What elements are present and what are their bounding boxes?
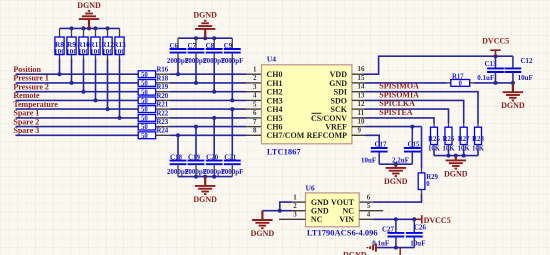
wire net VREF pin10	[352, 126, 365, 128]
svg-text:C20: C20	[206, 153, 219, 161]
capacitor C6 2000pF	[170, 49, 187, 53]
svg-text:R18: R18	[157, 75, 169, 82]
wire R26 to ground bus	[448, 145, 450, 149]
svg-text:CS/CONV: CS/CONV	[311, 114, 347, 123]
svg-text:DGND: DGND	[444, 169, 468, 178]
svg-text:R17: R17	[452, 73, 464, 80]
svg-text:50: 50	[141, 133, 148, 140]
svg-text:DVCC5: DVCC5	[424, 216, 451, 225]
svg-text:VREF: VREF	[325, 123, 347, 132]
junction	[194, 175, 198, 179]
junction pin1/pin2	[278, 209, 282, 213]
svg-text:15: 15	[358, 74, 366, 82]
ground DGND (top-left)	[79, 11, 99, 29]
wire C12 top stub	[512, 56, 514, 68]
svg-text:LT1790ACS6-4.096: LT1790ACS6-4.096	[307, 227, 378, 237]
svg-text:DGND: DGND	[193, 11, 217, 20]
svg-text:SPISTEA: SPISTEA	[379, 108, 413, 117]
svg-text:7: 7	[253, 118, 257, 126]
svg-text:CH1: CH1	[267, 79, 283, 88]
wire top-left resistor bus	[60, 27, 120, 29]
svg-text:Pressure 2: Pressure 2	[13, 83, 48, 92]
wire R8 to row 1	[59, 55, 61, 59]
resistor R18 50	[138, 80, 155, 87]
resistor R17 0	[451, 80, 470, 87]
wire R24 to U4 pin 8	[156, 134, 170, 136]
svg-text:R29: R29	[426, 174, 438, 181]
svg-text:VDD: VDD	[330, 70, 348, 79]
svg-text:C21: C21	[224, 153, 237, 161]
wire net Pressure 2	[16, 91, 139, 93]
svg-text:2: 2	[293, 202, 297, 210]
svg-text:Pressure 1: Pressure 1	[13, 74, 48, 83]
capacitor C17 10uF	[371, 148, 388, 152]
svg-text:0: 0	[426, 181, 430, 188]
wire C8 top stub	[213, 38, 215, 49]
wire net Temperature	[16, 108, 139, 110]
svg-text:13: 13	[358, 91, 366, 99]
resistor R8 100	[59, 28, 61, 37]
svg-text:DGND: DGND	[251, 229, 275, 238]
wire VREF down to R29	[421, 127, 423, 169]
resistor R27 10K	[460, 127, 467, 144]
wire R10 to row 3	[83, 55, 85, 59]
wire R20 to U4 pin 4	[156, 99, 170, 101]
wire net REFCOMP pin9	[352, 134, 365, 136]
wire net Pressure 1	[16, 82, 139, 84]
svg-text:C7: C7	[187, 42, 196, 50]
resistor R12 100	[107, 28, 109, 37]
svg-text:CH2: CH2	[267, 88, 283, 97]
wire R12 to row 5	[107, 55, 109, 59]
capacitor C26 10uF	[406, 233, 423, 237]
junction C27	[394, 217, 398, 221]
svg-text:5: 5	[253, 100, 257, 108]
resistor R10 100	[83, 28, 85, 37]
svg-text:R25: R25	[428, 136, 440, 143]
svg-text:CH4: CH4	[267, 105, 283, 114]
junction	[212, 175, 216, 179]
resistor R13 100	[119, 28, 121, 37]
svg-text:R21: R21	[157, 102, 169, 109]
junction C13/GND wire	[494, 81, 498, 85]
svg-text:11: 11	[358, 109, 365, 117]
svg-text:Spare 1: Spare 1	[13, 109, 39, 118]
resistor R16 50	[138, 71, 155, 78]
wire R11 to row 4	[95, 55, 97, 59]
wire C7 top stub	[195, 38, 197, 49]
svg-text:R16: R16	[157, 67, 169, 74]
junction C26	[412, 217, 416, 221]
wire C15 top stub	[411, 127, 413, 148]
wire net SPISTEA	[352, 117, 365, 119]
junction	[106, 26, 110, 30]
wire R27 to ground bus	[463, 145, 465, 149]
junction DGND stub	[394, 162, 398, 166]
svg-text:DGND: DGND	[193, 195, 217, 204]
svg-text:C15: C15	[407, 141, 420, 149]
junction	[394, 246, 398, 250]
capacitor C20 2000pF	[206, 161, 223, 165]
wire net VDD / DVCC5 rail (pin 16)	[352, 73, 364, 75]
wire C20 from row 6	[212, 116, 216, 120]
wire net SPISOMIA	[352, 99, 365, 101]
junction	[106, 107, 110, 111]
junction	[212, 90, 216, 94]
junction	[70, 81, 74, 85]
wire C27 top stub	[395, 219, 397, 233]
capacitor C27 0.1uF	[388, 233, 405, 237]
junction	[70, 26, 74, 30]
junction	[447, 154, 451, 158]
wire R28 to ground bus	[477, 145, 479, 149]
svg-text:REFCOMP: REFCOMP	[307, 131, 348, 140]
resistor R21 50	[138, 106, 155, 113]
svg-text:SPICLKA: SPICLKA	[379, 99, 415, 108]
wire ground stub down (cut off)	[399, 248, 401, 255]
junction	[94, 26, 98, 30]
resistor R28 10K	[475, 127, 482, 144]
svg-text:1: 1	[293, 194, 297, 202]
wire U6 pin2	[292, 210, 306, 212]
wire C18 bottom stub	[177, 164, 179, 176]
svg-text:R22: R22	[157, 110, 169, 117]
wire C17 bottom stub	[378, 152, 380, 165]
svg-text:C9: C9	[224, 42, 233, 50]
wire net SPISIMOA	[352, 91, 365, 93]
wire C18 from row 8	[176, 133, 180, 137]
svg-text:14: 14	[358, 83, 366, 91]
junction DVCC5/C13	[494, 54, 498, 58]
wire net Spare 1	[16, 117, 139, 119]
wire C21 bottom stub	[231, 164, 233, 176]
wire C9 to row 4	[231, 53, 233, 58]
junction DGND stub	[87, 26, 91, 30]
svg-text:R28: R28	[472, 136, 484, 143]
svg-text:Position: Position	[13, 65, 41, 74]
resistor R29 0	[418, 173, 425, 190]
wire C12 bottom stub	[512, 72, 514, 83]
IC U4 body (ADC LTC1867)	[262, 65, 352, 144]
junction	[212, 36, 216, 40]
wire net Position	[16, 73, 139, 75]
svg-text:SDI: SDI	[334, 88, 347, 97]
ground DGND (bottom, rotated)	[367, 244, 377, 252]
svg-text:50: 50	[141, 72, 148, 79]
resistor R19 50	[138, 88, 155, 95]
svg-text:Spare 3: Spare 3	[13, 126, 39, 135]
svg-text:3: 3	[293, 211, 297, 219]
svg-text:10uF: 10uF	[410, 240, 425, 248]
wire net GND pin15 to R17	[352, 82, 365, 84]
ground DGND (top caps)	[195, 21, 216, 39]
svg-text:C6: C6	[169, 42, 178, 50]
wire C19 from row 7	[194, 125, 198, 129]
wire net Spare 3	[16, 134, 139, 136]
svg-text:R19: R19	[157, 84, 169, 91]
resistor R25 10K	[431, 127, 438, 144]
junction DGND stub	[203, 36, 207, 40]
svg-text:4: 4	[367, 211, 371, 219]
svg-text:DGND: DGND	[501, 101, 525, 110]
power DVCC5 (top right)	[490, 50, 500, 56]
wire C13 bottom stub	[495, 72, 497, 83]
ground DGND (under C17 C15)	[386, 164, 407, 176]
svg-text:0: 0	[458, 81, 462, 88]
junction	[194, 36, 198, 40]
resistor R26 10K	[445, 127, 452, 144]
svg-text:R24: R24	[157, 128, 169, 135]
capacitor C21 2000pF	[224, 161, 241, 165]
svg-text:VIN: VIN	[339, 215, 354, 224]
svg-text:2: 2	[253, 74, 257, 82]
svg-text:LTC1867: LTC1867	[267, 147, 301, 157]
svg-text:10: 10	[358, 118, 366, 126]
svg-text:DGND: DGND	[77, 1, 101, 10]
resistor R24 50	[138, 132, 155, 139]
svg-text:1: 1	[253, 65, 257, 73]
junction	[176, 72, 180, 76]
wire R21 to U4 pin 5	[156, 108, 170, 110]
capacitor C7 2000pF	[188, 49, 205, 53]
junction C15 branch	[410, 125, 414, 129]
wire R18 to U4 pin 2	[156, 82, 170, 84]
svg-text:6: 6	[367, 194, 371, 202]
junction	[118, 116, 122, 120]
wire net Spare 2	[16, 126, 139, 128]
svg-text:C27: C27	[382, 225, 395, 233]
wire C6 top stub	[177, 38, 179, 49]
wire U6 pin1	[292, 201, 306, 203]
wire R25 to ground bus	[433, 145, 435, 149]
svg-text:10uF: 10uF	[518, 74, 533, 82]
svg-text:50: 50	[141, 81, 148, 88]
junction	[94, 98, 98, 102]
junction	[462, 154, 466, 158]
junction	[194, 81, 198, 85]
svg-text:SPISOMIA: SPISOMIA	[379, 90, 419, 99]
svg-text:C13: C13	[484, 60, 497, 68]
svg-text:8: 8	[253, 127, 257, 135]
svg-text:DVCC5: DVCC5	[482, 36, 509, 45]
capacitor C13 0.1uF	[487, 68, 504, 72]
capacitor C9 2000pF	[224, 49, 241, 53]
wire C9 top stub	[231, 38, 233, 49]
svg-text:0.1uF: 0.1uF	[477, 74, 494, 82]
wire C7 to row 2	[195, 53, 197, 58]
svg-text:SCK: SCK	[331, 105, 348, 114]
svg-text:SDO: SDO	[331, 96, 347, 105]
svg-text:9: 9	[358, 126, 362, 134]
wire C17/C15 ground bus	[379, 163, 412, 165]
svg-text:50: 50	[141, 107, 148, 114]
resistor R20 50	[138, 97, 155, 104]
svg-text:Remote: Remote	[13, 91, 40, 100]
svg-text:GND: GND	[329, 79, 347, 88]
wire R29 to U6 VOUT	[421, 190, 423, 195]
svg-text:R23: R23	[157, 119, 169, 126]
svg-text:C26: C26	[414, 224, 427, 232]
junction DGND stub	[454, 154, 458, 158]
wire top capacitor ground bus	[178, 37, 232, 39]
junction DGND stub	[203, 175, 207, 179]
IC U6 body (voltage reference)	[306, 193, 360, 227]
svg-text:R20: R20	[157, 93, 169, 100]
svg-text:6: 6	[253, 109, 257, 117]
svg-text:CH6: CH6	[267, 123, 283, 132]
junction	[58, 72, 62, 76]
svg-text:CH7/COM: CH7/COM	[267, 131, 305, 140]
ground DGND (U6 left)	[252, 211, 273, 229]
wire C26 bottom stub	[413, 237, 415, 248]
wire C19 bottom stub	[195, 164, 197, 176]
resistor R23 50	[138, 123, 155, 130]
wire R16 to U4 pin 1	[156, 73, 170, 75]
wire U6 pin5 stub (NC)	[359, 210, 383, 212]
capacitor C8 2000pF	[206, 49, 223, 53]
svg-text:U4: U4	[267, 55, 276, 64]
svg-text:12: 12	[358, 100, 366, 108]
svg-text:C19: C19	[188, 153, 201, 161]
wire U6 pin3 stub (NC)	[279, 218, 305, 220]
wire net Remote	[16, 99, 139, 101]
wire C27/C26 ground bus	[378, 247, 415, 249]
svg-text:4: 4	[253, 92, 257, 100]
svg-text:U6: U6	[306, 183, 315, 192]
wire C26 top stub	[413, 219, 415, 233]
svg-text:SPISIMOA: SPISIMOA	[379, 82, 419, 91]
wire C21 from row 5	[230, 107, 234, 111]
svg-text:5: 5	[367, 202, 371, 210]
wire R25-R28 ground bus	[434, 155, 478, 157]
junction	[82, 26, 86, 30]
ground DGND (under C12)	[503, 83, 523, 101]
svg-text:R27: R27	[458, 136, 470, 143]
wire R9 to row 2	[71, 55, 73, 59]
svg-text:C12: C12	[520, 57, 533, 65]
svg-text:CH0: CH0	[267, 70, 283, 79]
wire C8 to row 3	[213, 53, 215, 58]
junction	[82, 90, 86, 94]
svg-text:50: 50	[141, 116, 148, 123]
svg-text:3: 3	[253, 83, 257, 91]
svg-text:DGND: DGND	[384, 177, 408, 186]
svg-text:10uF: 10uF	[361, 156, 376, 164]
capacitor C19 2000pF	[188, 161, 205, 165]
resistor R22 50	[138, 115, 155, 122]
ground DGND (under R25-R28)	[446, 156, 467, 169]
capacitor C15 2.2uF	[404, 148, 421, 152]
svg-text:50: 50	[141, 98, 148, 105]
ground DGND (bottom caps)	[195, 177, 216, 195]
wire C6 to row 1	[177, 53, 179, 58]
wire R19 to U4 pin 3	[156, 91, 170, 93]
resistor R11 100	[95, 28, 97, 37]
svg-text:CH5: CH5	[267, 114, 283, 123]
wire net SPICLKA	[352, 108, 365, 110]
svg-text:CH3: CH3	[267, 96, 283, 105]
wire R13 to row 6	[119, 55, 121, 59]
junction C12/GND wire	[511, 81, 515, 85]
svg-text:Spare 2: Spare 2	[13, 117, 39, 126]
svg-text:R26: R26	[443, 136, 455, 143]
wire C20 bottom stub	[213, 164, 215, 176]
svg-text:NC: NC	[311, 215, 323, 224]
capacitor C12 10uF	[505, 68, 522, 72]
overline on CS	[312, 112, 322, 114]
svg-text:C8: C8	[206, 42, 215, 50]
wire R22 to U4 pin 6	[156, 117, 170, 119]
wire net VIN	[359, 218, 373, 220]
svg-text:DGND: DGND	[343, 251, 367, 255]
svg-text:50: 50	[141, 89, 148, 96]
svg-text:Temperature: Temperature	[13, 100, 58, 109]
svg-text:0.1uF: 0.1uF	[372, 240, 389, 248]
junction	[230, 98, 234, 102]
svg-text:C18: C18	[170, 153, 183, 161]
wire R23 to U4 pin 7	[156, 126, 170, 128]
wire C13 top stub	[495, 56, 497, 68]
wire C15 bottom stub	[411, 152, 413, 165]
power DVCC5 (bottom right)	[414, 215, 422, 223]
svg-text:50: 50	[141, 124, 148, 131]
wire bottom capacitor ground bus	[178, 176, 232, 178]
wire C27 bottom stub	[395, 237, 397, 248]
resistor R9 100	[71, 28, 73, 37]
wire R17 to C12 ground	[470, 82, 474, 84]
capacitor C18 2000pF	[170, 161, 187, 165]
svg-text:16: 16	[358, 65, 366, 73]
svg-text:C17: C17	[374, 141, 387, 149]
